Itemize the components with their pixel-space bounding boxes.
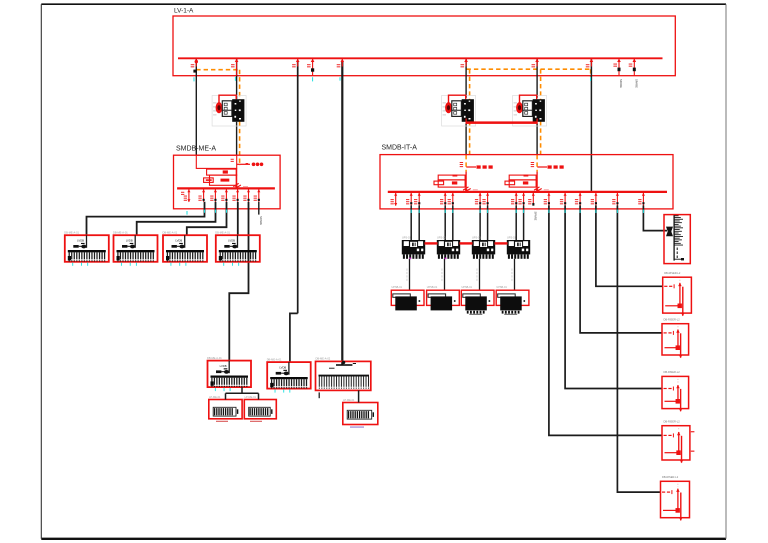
svg-text:DB-RISER-L2: DB-RISER-L2 [664,271,681,275]
svg-text:SPARE: SPARE [635,79,639,88]
svg-text:DB-ME-A-01: DB-ME-A-01 [64,230,79,234]
svg-text:DB-RISER-L2: DB-RISER-L2 [664,420,681,424]
svg-text:DB-RISER-L2: DB-RISER-L2 [664,318,681,322]
svg-text:SPARE: SPARE [259,216,263,225]
svg-text:SMDB-IT-A: SMDB-IT-A [382,145,418,152]
svg-text:UPSB-01: UPSB-01 [427,286,438,289]
svg-text:LVDB: LVDB [228,239,235,243]
svg-text:UPS-01: UPS-01 [402,236,411,239]
svg-text:SPARE: SPARE [619,79,623,88]
svg-text:LVDB: LVDB [77,239,84,243]
svg-text:DB-ME-A-01: DB-ME-A-01 [113,230,128,234]
svg-text:DB-ME-A-01: DB-ME-A-01 [215,230,230,234]
svg-text:UPSB-01: UPSB-01 [496,286,507,289]
svg-text:DB-ME-A-01: DB-ME-A-01 [207,356,222,360]
svg-text:UPS-01: UPS-01 [437,236,446,239]
svg-text:LP-ME-01: LP-ME-01 [245,396,257,399]
svg-text:LVDB: LVDB [175,239,182,243]
svg-text:LP-ME-01: LP-ME-01 [343,399,355,402]
svg-text:DB-RISER-L2: DB-RISER-L2 [664,370,681,374]
svg-text:SPARE: SPARE [534,212,538,221]
svg-text:DB-RISER-L2: DB-RISER-L2 [662,475,679,479]
svg-text:DB-ME-A-01: DB-ME-A-01 [163,230,178,234]
svg-text:UPSB-01: UPSB-01 [462,286,473,289]
svg-text:LVDB: LVDB [220,364,227,368]
svg-text:UPSB-01: UPSB-01 [392,286,403,289]
svg-text:UPS-01: UPS-01 [472,236,481,239]
svg-text:LVDB: LVDB [126,239,133,243]
svg-text:LVDB: LVDB [279,365,286,369]
svg-text:LP-ME-01: LP-ME-01 [209,396,221,399]
svg-text:DB-ME-A-01: DB-ME-A-01 [267,357,282,361]
svg-text:LV-1-A: LV-1-A [174,8,194,15]
svg-text:UPS-01: UPS-01 [507,236,516,239]
svg-text:DB-ME-A-02: DB-ME-A-02 [316,357,331,361]
